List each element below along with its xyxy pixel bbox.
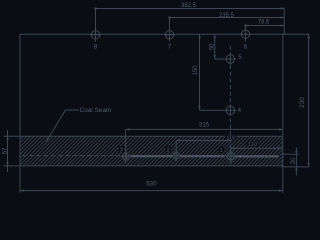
svg-text:5: 5 [238,54,242,61]
svg-text:78,5: 78,5 [258,19,270,25]
svg-text:4: 4 [238,107,242,114]
svg-text:530: 530 [146,181,157,188]
svg-text:20: 20 [291,157,297,164]
svg-text:110: 110 [248,142,257,148]
svg-text:7: 7 [168,43,172,50]
svg-text:Coal Seam: Coal Seam [80,107,112,114]
svg-text:8: 8 [94,43,98,50]
svg-text:50: 50 [210,43,216,50]
svg-text:150: 150 [193,65,199,76]
svg-text:315: 315 [199,123,210,129]
svg-text:230: 230 [299,97,306,108]
svg-text:235,5: 235,5 [219,13,235,19]
svg-text:110: 110 [226,136,235,142]
svg-text:57: 57 [2,147,8,154]
svg-text:6: 6 [244,43,248,50]
svg-text:382,5: 382,5 [181,3,197,9]
svg-text:2: 2 [166,147,169,153]
svg-text:3: 3 [120,148,123,154]
svg-text:1: 1 [220,148,223,154]
